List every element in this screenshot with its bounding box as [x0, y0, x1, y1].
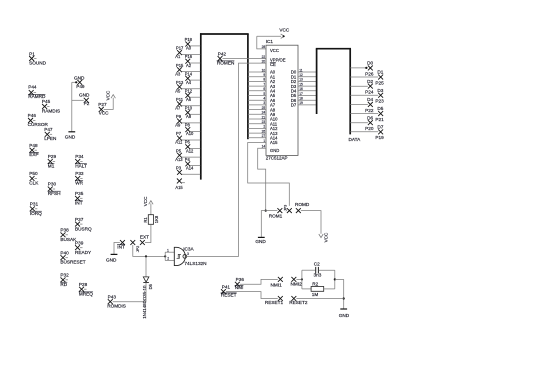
- svg-text:1K8: 1K8: [154, 215, 159, 223]
- IC1 pin 28 VCC: [262, 45, 279, 53]
- junction RESET2 node: [343, 297, 345, 299]
- data pin row D2/P24: [350, 79, 374, 95]
- svg-text:DATA: DATA: [349, 137, 362, 142]
- bus pin row P18: [185, 37, 201, 47]
- svg-text:P14: P14: [185, 71, 193, 76]
- svg-text:26: 26: [262, 129, 266, 133]
- svg-text:P21: P21: [375, 117, 384, 122]
- VCC symbol above R1: [143, 196, 153, 206]
- svg-text:D5: D5: [148, 283, 153, 289]
- svg-text:D2: D2: [367, 79, 373, 84]
- svg-text:D7: D7: [377, 124, 383, 129]
- svg-text:EXP: EXP: [29, 152, 38, 157]
- svg-text:P24: P24: [365, 90, 374, 95]
- svg-text:5: 5: [263, 92, 265, 96]
- IC1 pin 18 D6 wire: [291, 97, 317, 103]
- svg-text:18: 18: [299, 97, 303, 101]
- pin P27 VCC: [98, 102, 109, 115]
- IC1 pin 16 D4 wire: [291, 87, 317, 93]
- wire NMI2 to RC network: [296, 278, 302, 280]
- svg-text:P30: P30: [48, 182, 57, 187]
- svg-text:P49: P49: [76, 84, 85, 89]
- wire RC node to GND drop: [335, 278, 344, 280]
- pin P47 LPEN (no connect): [44, 127, 56, 141]
- pin P28 MREQ (no connect): [79, 282, 93, 296]
- svg-text:19: 19: [299, 101, 303, 105]
- wire RESET2 to GND node: [296, 298, 343, 300]
- IC1 pin 15 D3 wire: [291, 82, 317, 88]
- svg-text:A8: A8: [186, 114, 192, 119]
- VCC symbol (up arrow): [105, 90, 115, 100]
- svg-text:P40: P40: [60, 250, 69, 255]
- svg-text:A15: A15: [175, 185, 183, 190]
- svg-text:11: 11: [299, 68, 303, 72]
- svg-text:A6: A6: [186, 97, 192, 102]
- svg-text:A1: A1: [175, 54, 181, 59]
- IC1 pin 7 A3 wire: [248, 82, 276, 88]
- svg-text:GND: GND: [106, 257, 117, 262]
- data pin row D4/P22: [350, 97, 374, 113]
- pin P39 READY (no connect): [75, 241, 92, 255]
- pin P36 NMI: [235, 277, 245, 290]
- pin P41 RESET: [221, 284, 237, 297]
- svg-text:P15: P15: [176, 63, 184, 68]
- wire P36 to NMI1: [240, 279, 278, 284]
- svg-text:P18: P18: [185, 37, 193, 42]
- svg-text:ROMDIS: ROMDIS: [107, 304, 126, 309]
- svg-text:7: 7: [263, 82, 265, 86]
- svg-text:RAMDIS: RAMDIS: [42, 108, 60, 113]
- pin P37 BUSRQ (no connect): [75, 217, 92, 231]
- svg-text:P37: P37: [75, 217, 84, 222]
- pin P1 SOUND (no connect): [29, 51, 47, 65]
- svg-text:P7: P7: [176, 131, 182, 136]
- IC1 pin 8 A2 wire: [248, 78, 276, 84]
- data pin row D1/P25: [350, 70, 384, 86]
- svg-text:P50: P50: [29, 171, 38, 176]
- ground symbol ROM1: [255, 237, 266, 243]
- svg-text:D7: D7: [291, 103, 297, 108]
- svg-text:P13: P13: [176, 80, 184, 85]
- svg-text:A15: A15: [270, 140, 278, 145]
- bus pin row P8/A9: [175, 123, 200, 133]
- IC1 pin 26 A13 wire: [248, 129, 278, 135]
- svg-text:P41: P41: [222, 284, 231, 289]
- IC1 pin 1 A15 wire: [263, 139, 278, 145]
- svg-text:3n3: 3n3: [314, 273, 322, 278]
- capacitor C2 3n3: [302, 261, 335, 277]
- wire INT pin to ground: [114, 243, 120, 255]
- svg-text:A0: A0: [186, 46, 192, 51]
- bus pin row P10/A7: [175, 106, 200, 116]
- svg-text:RESET2: RESET2: [289, 300, 308, 305]
- svg-text:P45: P45: [42, 99, 51, 104]
- svg-text:HALT: HALT: [75, 164, 87, 169]
- IC1 pin 4 A6 wire: [248, 97, 276, 103]
- bus pin row P12/A5: [175, 88, 200, 98]
- svg-text:P20: P20: [365, 126, 374, 131]
- svg-text:D5: D5: [377, 106, 383, 111]
- data pin row D7/P19: [350, 124, 384, 140]
- svg-text:P38: P38: [60, 227, 69, 232]
- svg-text:ROMEN: ROMEN: [217, 61, 234, 66]
- svg-text:D1: D1: [377, 70, 383, 75]
- svg-text:R2: R2: [312, 282, 318, 287]
- bus pin row P4/A13: [175, 157, 200, 167]
- jumper ROM1: [269, 205, 292, 219]
- svg-text:12: 12: [299, 73, 303, 77]
- svg-text:P42: P42: [218, 51, 227, 56]
- svg-text:21: 21: [262, 115, 266, 119]
- svg-text:P28: P28: [79, 282, 88, 287]
- pin NMI1: [271, 277, 283, 287]
- pin P42 ROMEN: [217, 51, 234, 65]
- svg-text:M1: M1: [48, 164, 55, 169]
- svg-text:VCC: VCC: [324, 232, 329, 242]
- svg-text:RESET1: RESET1: [265, 300, 284, 305]
- svg-text:GND: GND: [255, 239, 266, 244]
- pin NMI2: [291, 277, 303, 287]
- svg-text:R1: R1: [143, 217, 148, 223]
- wire P41 to RESET1: [226, 292, 278, 299]
- wire VCC to R1: [150, 203, 152, 214]
- svg-text:1M: 1M: [312, 292, 319, 297]
- bus pin row P7/A10: [176, 131, 200, 140]
- svg-text:JP2: JP2: [136, 246, 140, 253]
- pin P30 RFSH (no connect): [48, 182, 61, 196]
- junction RC right node: [334, 278, 336, 280]
- svg-text:VCC: VCC: [270, 48, 279, 53]
- pin P44 RAMRD (no connect): [28, 85, 46, 99]
- svg-text:A12: A12: [186, 148, 194, 153]
- svg-text:VCC: VCC: [279, 28, 290, 33]
- svg-text:P6: P6: [185, 140, 191, 145]
- svg-text:25: 25: [262, 106, 266, 110]
- bus pin row A15/A15: [175, 179, 185, 190]
- svg-text:P29: P29: [48, 154, 57, 159]
- svg-text:NMI2: NMI2: [291, 282, 303, 287]
- svg-text:P17: P17: [176, 46, 184, 51]
- VCC symbol (down arrow): [319, 232, 329, 242]
- bus pin row P15/A2: [176, 63, 200, 72]
- pin RESET1: [265, 296, 284, 305]
- svg-text:P2: P2: [84, 101, 90, 106]
- svg-text:VCC: VCC: [99, 110, 110, 115]
- svg-text:MREQ: MREQ: [79, 292, 93, 297]
- pin P32 RD (no connect): [60, 273, 69, 287]
- svg-text:P26: P26: [365, 71, 374, 76]
- svg-text:13: 13: [299, 78, 303, 82]
- junction gate input: [164, 255, 166, 257]
- IC1 pin 5 A5 wire: [248, 92, 276, 98]
- svg-text:24: 24: [262, 111, 266, 115]
- ground symbol INT: [106, 254, 117, 262]
- svg-text:READY: READY: [75, 250, 92, 255]
- svg-text:P4: P4: [185, 157, 191, 162]
- svg-text:P43: P43: [108, 295, 117, 300]
- svg-text:D4: D4: [367, 97, 373, 102]
- wire diode to P43: [145, 283, 147, 302]
- svg-text:2: 2: [167, 257, 169, 261]
- svg-text:74LS132N: 74LS132N: [184, 261, 206, 266]
- data pin row D0/P26: [350, 61, 374, 77]
- svg-text:P39: P39: [75, 241, 84, 246]
- bus: address bus (left): [200, 33, 249, 179]
- svg-text:GND: GND: [74, 76, 85, 81]
- wire junction to diode: [145, 256, 147, 277]
- wire A15 to ROM1 jumper: [248, 143, 290, 206]
- svg-text:P19: P19: [375, 135, 384, 140]
- svg-text:A2: A2: [186, 63, 192, 68]
- IC1 pin 3 A7 wire: [248, 101, 276, 107]
- svg-text:P33: P33: [75, 171, 84, 176]
- svg-text:P32: P32: [60, 273, 69, 278]
- svg-text:15: 15: [299, 82, 303, 86]
- svg-text:2: 2: [263, 125, 265, 129]
- svg-text:RFSH: RFSH: [48, 191, 61, 196]
- svg-text:D0: D0: [367, 61, 373, 66]
- IC1 pin 20 CE: [262, 59, 276, 67]
- svg-text:IC3A: IC3A: [183, 246, 194, 251]
- svg-text:GND: GND: [65, 135, 76, 140]
- pin P50 CLK (no connect): [29, 171, 39, 185]
- svg-text:P22: P22: [365, 108, 374, 113]
- svg-text:P1: P1: [29, 51, 35, 56]
- svg-text:8: 8: [263, 78, 265, 82]
- svg-text:P12: P12: [185, 88, 193, 93]
- svg-text:1N4148DO35-10: 1N4148DO35-10: [142, 285, 147, 319]
- svg-text:A11: A11: [175, 140, 183, 145]
- pin P34 HALT (no connect): [75, 154, 87, 168]
- svg-text:3: 3: [187, 252, 189, 256]
- junction ROM1 node: [265, 210, 267, 212]
- op-amp IC3A 74LS132N NAND gate: [165, 246, 206, 266]
- svg-text:ROMD: ROMD: [295, 202, 310, 207]
- svg-text:27: 27: [262, 134, 266, 138]
- svg-text:EXT: EXT: [140, 235, 149, 240]
- svg-text:P31: P31: [30, 202, 39, 207]
- IC1 pin 23 A11 wire: [248, 120, 278, 126]
- pin P40 BUSRESET (no connect): [60, 250, 85, 264]
- svg-text:NMI: NMI: [235, 285, 244, 290]
- svg-text:RD: RD: [60, 282, 67, 287]
- svg-text:SOUND: SOUND: [29, 61, 47, 66]
- IC1 pin 14 GND: [262, 145, 280, 153]
- svg-text:VCC: VCC: [143, 196, 148, 206]
- pin P35 INT (no connect): [75, 191, 84, 205]
- svg-text:6: 6: [263, 87, 265, 91]
- svg-text:INT: INT: [117, 244, 125, 249]
- svg-text:CLK: CLK: [29, 181, 39, 186]
- svg-text:P36: P36: [236, 277, 245, 282]
- svg-text:GND: GND: [79, 92, 90, 97]
- svg-text:D6: D6: [367, 115, 373, 120]
- wire GND rail vertical: [71, 82, 73, 131]
- svg-text:9: 9: [263, 73, 265, 77]
- pin INT (left): [117, 240, 125, 249]
- svg-text:GND: GND: [339, 313, 350, 318]
- svg-text:A9: A9: [175, 123, 181, 128]
- bus pin row P11/A6: [176, 97, 200, 106]
- wire gate output to IC1 CE: [187, 63, 266, 256]
- pin P45 RAMDIS (no connect): [42, 99, 60, 113]
- svg-text:16: 16: [299, 87, 303, 91]
- IC1 pin 19 D7 wire: [291, 101, 317, 107]
- IC1 pin 21 A10 wire: [248, 115, 278, 121]
- node GND / pin P49: [72, 76, 85, 89]
- pin RESET2: [289, 296, 308, 305]
- svg-text:P11: P11: [176, 97, 184, 102]
- svg-text:A14: A14: [186, 165, 194, 170]
- data pin row D5/P21: [350, 106, 384, 122]
- svg-text:IC1: IC1: [266, 39, 274, 44]
- ground symbol left rail: [65, 132, 76, 140]
- bus pin row P13/A4: [176, 80, 200, 89]
- pin P29 M1 (no connect): [48, 154, 57, 168]
- data pin row D3/P23: [350, 88, 384, 104]
- svg-text:P27: P27: [98, 102, 107, 107]
- diode D5 1N4148: [142, 277, 153, 319]
- svg-text:NMI1: NMI1: [271, 282, 283, 287]
- svg-text:P47: P47: [44, 127, 53, 132]
- svg-text:P3: P3: [176, 165, 182, 170]
- wire RC left vertical: [301, 270, 303, 289]
- svg-text:VCC: VCC: [105, 90, 110, 100]
- pin P31 IORQ (no connect): [30, 202, 42, 216]
- wire GND pin 14 down: [258, 148, 266, 210]
- IC1 pin 25 A8 wire: [248, 106, 276, 112]
- svg-text:D3: D3: [377, 88, 383, 93]
- wire to ROM1 jumper: [266, 210, 278, 212]
- svg-text:ROM1: ROM1: [269, 213, 283, 218]
- pin P33 WR (no connect): [75, 171, 84, 185]
- IC1 pin 13 D2 wire: [291, 78, 317, 84]
- bus pin row P5/A12: [176, 148, 200, 157]
- IC1 pin 6 A4 wire: [248, 87, 276, 93]
- wire ROMEN to IC1 pin 22: [223, 58, 267, 60]
- svg-text:P5: P5: [176, 148, 182, 153]
- svg-text:A5: A5: [175, 88, 181, 93]
- svg-text:P44: P44: [28, 85, 37, 90]
- pin P43 ROMDIS: [107, 295, 126, 309]
- resistor R2 1M: [302, 282, 335, 297]
- wire jumper to gate input: [133, 245, 165, 256]
- svg-text:LPEN: LPEN: [44, 136, 56, 141]
- IC1 EPROM body: [266, 45, 298, 155]
- svg-text:A10: A10: [186, 131, 194, 136]
- pin P46 CURSOR (no connect): [28, 113, 49, 127]
- pin P48 EXP (no connect): [29, 143, 38, 157]
- bus pin row P3/A14: [176, 165, 200, 174]
- bus pin row P16/A1: [175, 54, 200, 64]
- svg-text:3: 3: [263, 101, 265, 105]
- svg-text:P23: P23: [375, 99, 384, 104]
- VCC symbol at IC1 pin 28 (right arrow): [257, 28, 290, 39]
- IC1 pin 22 VPP/OE: [262, 55, 286, 63]
- ground symbol RC: [339, 309, 350, 318]
- pin P38 BUSAK (no connect): [60, 227, 77, 241]
- bus pin row P17/A0: [176, 46, 200, 55]
- svg-text:1: 1: [167, 248, 169, 252]
- IC1 pin 11 D0 wire: [291, 68, 317, 74]
- svg-text:P16: P16: [185, 54, 193, 59]
- svg-text:10: 10: [262, 68, 266, 72]
- svg-text:P34: P34: [75, 154, 84, 159]
- svg-text:22: 22: [262, 55, 266, 59]
- bus pin row P14/A3: [175, 71, 200, 81]
- IC1 pin 17 D5 wire: [291, 92, 317, 98]
- svg-text:27C512AP: 27C512AP: [266, 155, 288, 160]
- wire ROM1 node to ground: [261, 211, 265, 238]
- jumper JP2 INT/EXT: [130, 235, 149, 253]
- svg-text:C2: C2: [314, 261, 320, 266]
- wire P43 to diode D5: [113, 301, 146, 303]
- svg-text:P46: P46: [28, 113, 37, 118]
- wire ROMD to VCC: [301, 211, 321, 234]
- wire R1 to jumper EXT: [145, 224, 151, 242]
- wire VCC to pin 28: [257, 36, 266, 49]
- bus pin row P9/A8: [176, 114, 200, 123]
- IC1 pin 12 D1 wire: [291, 73, 317, 79]
- resistor R1: [143, 215, 159, 225]
- svg-text:RESET: RESET: [221, 293, 237, 298]
- IC1 pin 2 A12 wire: [248, 125, 278, 131]
- svg-text:28: 28: [262, 45, 266, 49]
- svg-text:A13: A13: [175, 157, 183, 162]
- IC1 pin 9 A1 wire: [248, 73, 276, 79]
- junction diode branch: [145, 255, 147, 257]
- svg-text:P48: P48: [29, 143, 38, 148]
- svg-text:GND: GND: [270, 148, 279, 153]
- data pin row D6/P20: [350, 115, 374, 131]
- svg-text:INT: INT: [75, 201, 83, 206]
- svg-text:WR: WR: [75, 181, 83, 186]
- svg-text:4: 4: [263, 97, 265, 101]
- IC1 pin 10 A0 wire: [248, 68, 276, 74]
- bus pin row P6/A11: [175, 140, 200, 150]
- svg-text:P8: P8: [185, 123, 191, 128]
- svg-text:CE: CE: [270, 62, 276, 67]
- svg-text:P35: P35: [75, 191, 84, 196]
- svg-text:P10: P10: [185, 106, 193, 111]
- svg-text:BUSRESET: BUSRESET: [60, 260, 85, 265]
- svg-text:P9: P9: [176, 114, 182, 119]
- svg-text:JP3: JP3: [283, 205, 287, 212]
- bus: data bus (right): [316, 49, 351, 135]
- IC1 pin 27 A14 wire: [248, 134, 278, 140]
- pin ROMD: [295, 202, 310, 213]
- svg-text:23: 23: [262, 120, 266, 124]
- svg-text:17: 17: [299, 92, 303, 96]
- svg-text:A3: A3: [175, 71, 181, 76]
- svg-text:P25: P25: [375, 80, 384, 85]
- svg-text:BUSRQ: BUSRQ: [75, 226, 92, 231]
- svg-text:A7: A7: [175, 106, 181, 111]
- node GND / pin P2: [72, 92, 90, 106]
- svg-text:A4: A4: [186, 80, 192, 85]
- wire P27 to VCC arrow: [104, 98, 114, 110]
- junction RC left node: [301, 278, 303, 280]
- IC1 pin 24 A9 wire: [248, 111, 276, 117]
- wire RC right vertical: [334, 270, 336, 289]
- svg-text:IORQ: IORQ: [30, 211, 42, 216]
